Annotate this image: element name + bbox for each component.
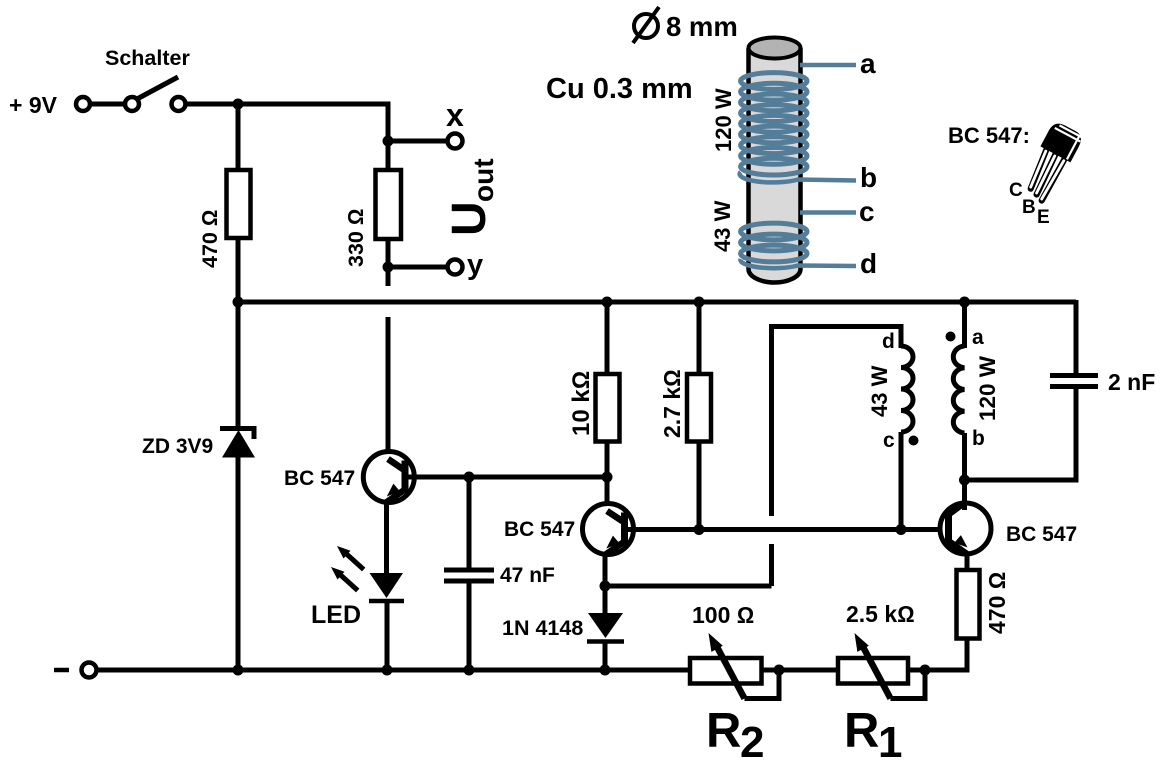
TO-92 package drawing [1031, 120, 1085, 201]
junction Q2 emitter / feedback wire [600, 581, 611, 592]
svg-text:c: c [883, 429, 895, 452]
transistor Q2 BC 547 circle [583, 504, 634, 555]
junction 10k / Q2 collector [602, 472, 613, 483]
junction rail / 47nF branch [464, 665, 475, 676]
transistor Q3 collector wire into circle [962, 480, 967, 510]
terminal y circle [448, 260, 463, 275]
transistor Q1 BC 547 circle [363, 452, 414, 503]
wire 330 ohm bottom to y-tap [386, 239, 391, 286]
svg-text:1: 1 [878, 718, 902, 763]
svg-text:b: b [860, 162, 877, 193]
svg-text:47 nF: 47 nF [500, 564, 555, 587]
winding 120W tap b lead (exit turn) [740, 172, 856, 182]
wire 470 ohm bottom down to main bus and zener [236, 238, 241, 429]
winding 43W tap c lead [800, 210, 856, 215]
junction bus / 120W coil [959, 297, 970, 308]
wire Q2 emitter down [603, 554, 608, 615]
wire feedback vertical upper segment [772, 327, 902, 517]
junction rail / zener branch [233, 665, 244, 676]
svg-text:c: c [859, 196, 875, 227]
svg-text:Schalter: Schalter [105, 46, 190, 70]
wire x-tap [388, 139, 448, 144]
svg-text:10 kΩ: 10 kΩ [568, 371, 595, 436]
transistor Q1 emitter diagonal [386, 490, 405, 503]
potentiometer R2 wiper tie wire [745, 670, 780, 699]
svg-text:BC 547:: BC 547: [948, 123, 1030, 148]
resistor 470 ohm (right) body [957, 570, 980, 639]
wire 120W coil bottom to Q3 collector node [962, 433, 967, 480]
svg-text:x: x [446, 97, 464, 133]
LED arrow 2 [340, 575, 358, 591]
junction bus / 10k [602, 297, 613, 308]
svg-text:y: y [467, 249, 483, 281]
svg-text:2: 2 [740, 718, 764, 763]
switch S1 terminal circle middle [125, 97, 139, 111]
package legs [1031, 150, 1065, 201]
wire switch left to middle [90, 102, 125, 107]
svg-text:470 Ω: 470 Ω [198, 210, 222, 268]
wire rail between R2 and R1 [762, 668, 839, 673]
svg-text:330 Ω: 330 Ω [344, 209, 368, 267]
wire Q1 base to right [405, 475, 607, 480]
potentiometer R1 body [838, 658, 908, 684]
transistor Q1 emitter arrow [387, 484, 400, 497]
winding 43W turns on rod [741, 223, 807, 262]
svg-text:+ 9V: + 9V [9, 92, 58, 118]
junction rail / 1N4148 branch [600, 665, 611, 676]
inductor 43W coil (schematic) [901, 346, 913, 432]
ferrite rod body [749, 48, 801, 283]
wire feedback horizontal from Q2 emitter [605, 584, 772, 589]
wire top rail from switch to corner above 330 ohm [186, 104, 389, 170]
svg-text:B: B [1022, 197, 1036, 218]
node minus terminal dash [54, 668, 69, 673]
svg-text:b: b [972, 427, 985, 450]
transistor Q3 emitter diagonal [949, 541, 968, 554]
wire 2.7k branch top [697, 302, 702, 376]
junction rail / LED branch [382, 665, 393, 676]
svg-text:BC 547: BC 547 [1006, 523, 1077, 546]
inductor 43W coil phase dot [909, 436, 919, 446]
wire 470 ohm branch top [236, 104, 241, 172]
wire 120W coil top to bus [962, 302, 967, 348]
resistor 470 ohm (left) body [227, 170, 251, 238]
wire main bus horizontal [238, 300, 1076, 305]
diameter symbol 8 mm label [634, 14, 658, 38]
zener diode ZD 3V9 triangle [222, 430, 255, 458]
svg-text:120 W: 120 W [975, 355, 1000, 421]
svg-text:R: R [844, 704, 879, 758]
svg-text:E: E [1037, 207, 1050, 228]
diode 1N 4148 triangle [588, 613, 623, 638]
transistor Q1 base bar [402, 461, 409, 494]
switch S1 terminal circle left [76, 97, 90, 111]
svg-text:LED: LED [311, 601, 361, 629]
wire Q1 emitter down to LED [384, 500, 389, 575]
transistor Q1 collector diagonal [388, 459, 405, 471]
wire 47 nF to bottom rail [467, 581, 472, 670]
svg-text:ZD 3V9: ZD 3V9 [142, 435, 213, 458]
potentiometer R2 wiper arrowhead [709, 633, 723, 652]
diode 1N 4148 cathode bar [587, 639, 624, 644]
LED D1 cathode bar [369, 599, 404, 604]
zener diode ZD 3V9 cathode bar with bent end [220, 429, 254, 440]
package body [1040, 120, 1084, 162]
LED arrow 1 [346, 554, 364, 570]
transistor Q3 BC 547 circle [940, 503, 991, 554]
potentiometer R1 wiper tie wire [891, 670, 926, 699]
svg-text:8 mm: 8 mm [666, 11, 738, 42]
wire collector node to 2nF bottom [965, 478, 1077, 483]
transistor Q3 base bar [945, 513, 952, 545]
capacitor 47 nF top wire [467, 477, 472, 570]
svg-text:2 nF: 2 nF [1108, 369, 1155, 395]
junction y-tap [383, 262, 394, 273]
ferrite rod top ellipse [749, 38, 801, 59]
svg-text:d: d [882, 330, 895, 353]
svg-text:a: a [860, 48, 876, 79]
transistor Q3 emitter arrow [954, 535, 967, 547]
svg-text:120 W: 120 W [711, 88, 736, 152]
capacitor 47 nF plates [444, 568, 494, 573]
potentiometer R1 wiper arrowhead [855, 633, 869, 652]
potentiometer R1 wiper shaft [862, 645, 891, 699]
terminal minus circle [82, 663, 97, 678]
resistor 2.7 kOhm body [687, 374, 711, 442]
wire 43W coil bottom to base wire [899, 432, 904, 530]
wire Q2 base long wire to Q3 base [625, 527, 949, 532]
junction 47nF tap on Q1 base wire [464, 472, 475, 483]
junction 43W coil / base wire [896, 524, 907, 535]
wire feedback vertical lower segment (gap at base wire crossing) [769, 544, 774, 586]
wire 1N4148 to bottom rail [603, 641, 608, 670]
inductor 120W coil phase dot [946, 332, 956, 342]
capacitor 2 nF plates [1050, 373, 1098, 378]
LED D1 triangle [370, 573, 404, 598]
potentiometer R2 wiper shaft [716, 645, 745, 699]
wire 10k bottom to Q2 collector [605, 442, 610, 511]
svg-text:43 W: 43 W [867, 365, 892, 417]
junction R2 right terminal [774, 665, 785, 676]
wire 2 nF bottom [1074, 387, 1079, 483]
svg-text:out: out [468, 158, 499, 202]
svg-text:470 Ω: 470 Ω [984, 572, 1010, 634]
junction x-tap [383, 136, 394, 147]
switch S1 terminal circle right [172, 97, 186, 111]
junction at top of 470 ohm branch [233, 99, 244, 110]
junction Q3 collector node [959, 475, 970, 486]
wire y-tap [388, 265, 448, 270]
resistor 10 kOhm body [596, 374, 620, 442]
svg-text:Cu 0.3 mm: Cu 0.3 mm [546, 73, 693, 105]
wire 2.7k bottom to Q2 base wire [697, 442, 702, 530]
transistor Q2 emitter arrow [606, 536, 619, 549]
wire bottom rail [97, 668, 691, 673]
svg-text:BC 547: BC 547 [284, 467, 355, 490]
junction bus / 2.7k [694, 297, 705, 308]
transistor Q2 base bar [621, 513, 628, 546]
junction 2.7k / base wire [694, 524, 705, 535]
svg-text:a: a [972, 326, 984, 349]
svg-text:1N 4148: 1N 4148 [502, 616, 583, 640]
transistor Q2 collector diagonal [607, 511, 625, 523]
potentiometer R2 body [690, 658, 762, 684]
winding 43W tap d lead (exit turn) [740, 259, 856, 268]
svg-text:100 Ω: 100 Ω [692, 602, 754, 628]
winding 120W turns on rod [741, 73, 807, 175]
wire 470 ohm (right) bottom to rail [925, 639, 967, 671]
terminal x circle [448, 134, 463, 149]
capacitor 2 nF top wire (bus corner) [1074, 300, 1079, 376]
junction R1 right terminal [920, 665, 931, 676]
wire Q3 emitter to 470 ohm (right) [965, 553, 970, 572]
wire 330 branch crossing bus with gap down to Q1 collector [386, 317, 391, 460]
svg-text:43 W: 43 W [710, 200, 735, 252]
junction bus / 470 ohm branch [233, 297, 244, 308]
wire rail right of R1 [908, 668, 967, 673]
svg-text:U: U [443, 201, 496, 236]
svg-text:C: C [1009, 180, 1023, 201]
transistor Q2 emitter diagonal [606, 542, 625, 555]
svg-text:2.5 kΩ: 2.5 kΩ [846, 601, 915, 627]
inductor 120W coil (schematic) [953, 346, 964, 433]
winding 120W tap a lead [800, 63, 856, 68]
transistor Q3 collector diagonal [949, 503, 965, 515]
wire zener to bottom rail [236, 456, 241, 670]
svg-text:BC 547: BC 547 [504, 518, 575, 541]
resistor 330 ohm body [376, 170, 402, 239]
LED D1 wire to bottom rail [385, 601, 390, 670]
svg-text:2.7 kΩ: 2.7 kΩ [659, 369, 685, 438]
svg-text:R: R [706, 704, 741, 758]
switch S1 lever [137, 77, 178, 99]
wire 10k branch top [605, 302, 610, 376]
svg-text:d: d [860, 248, 877, 279]
